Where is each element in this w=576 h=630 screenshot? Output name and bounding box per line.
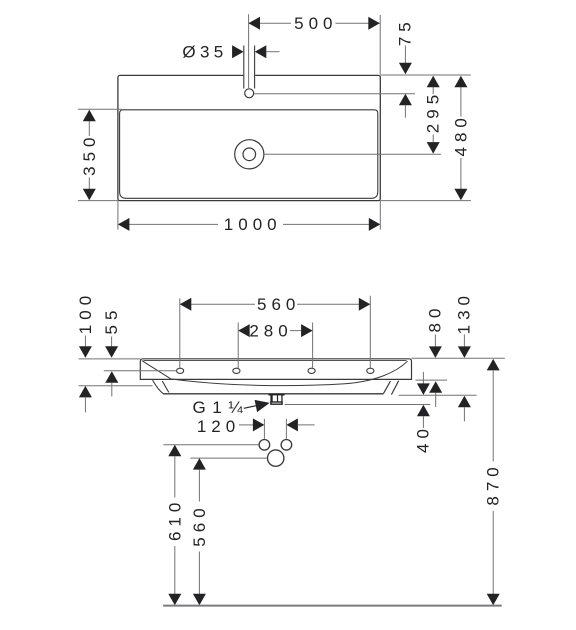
svg-text:G 1 ¼: G 1 ¼ xyxy=(192,398,244,417)
svg-text:100: 100 xyxy=(76,291,95,334)
svg-text:295: 295 xyxy=(424,90,443,133)
svg-text:560: 560 xyxy=(190,503,209,546)
svg-text:280: 280 xyxy=(249,321,292,340)
svg-text:610: 610 xyxy=(165,498,184,541)
svg-text:350: 350 xyxy=(80,133,99,176)
svg-text:500: 500 xyxy=(294,14,337,33)
svg-text:Ø35: Ø35 xyxy=(182,42,227,61)
svg-text:480: 480 xyxy=(451,113,470,156)
svg-text:120: 120 xyxy=(197,417,240,436)
svg-text:75: 75 xyxy=(396,17,415,46)
svg-text:40: 40 xyxy=(414,424,433,453)
svg-text:130: 130 xyxy=(455,291,474,334)
svg-text:55: 55 xyxy=(102,306,121,335)
svg-text:560: 560 xyxy=(257,295,300,314)
svg-text:1000: 1000 xyxy=(224,215,282,234)
svg-text:80: 80 xyxy=(426,304,445,333)
svg-text:870: 870 xyxy=(484,462,503,505)
